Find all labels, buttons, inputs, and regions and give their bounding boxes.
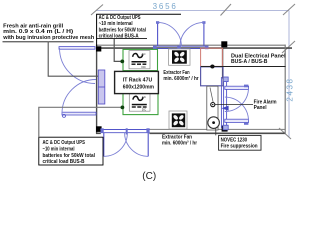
svg-text:2438: 2438 [286, 77, 295, 101]
svg-text:3656: 3656 [153, 2, 178, 11]
svg-text:IT Rack 47U: IT Rack 47U [123, 78, 152, 84]
svg-text:NOVEC 1230: NOVEC 1230 [221, 137, 248, 143]
svg-text:~10 min internal: ~10 min internal [99, 21, 133, 27]
svg-text:BUS-A / BUS-B: BUS-A / BUS-B [231, 59, 267, 65]
svg-text:Extractor Fan: Extractor Fan [163, 70, 190, 76]
svg-text:batteries for 50kW total: batteries for 50kW total [99, 27, 147, 33]
svg-text:with bug intrusion protective: with bug intrusion protective mesh [2, 35, 95, 41]
svg-text:600x1200mm: 600x1200mm [123, 85, 154, 91]
svg-text:~10 min internal: ~10 min internal [43, 147, 75, 153]
svg-text:min. 6000m³ / hr: min. 6000m³ / hr [163, 75, 199, 82]
svg-text:Panel: Panel [254, 105, 267, 111]
svg-text:(C): (C) [142, 171, 156, 182]
svg-text:AC & DC Output UPS: AC & DC Output UPS [99, 15, 141, 21]
svg-text:Fire suppression: Fire suppression [221, 144, 258, 150]
svg-text:batteries for 50kW total: batteries for 50kW total [43, 153, 96, 159]
svg-text:critical load BUS-B: critical load BUS-B [43, 159, 85, 165]
svg-text:AC & DC Output UPS: AC & DC Output UPS [43, 140, 86, 146]
svg-text:min. 6000m³ / hr: min. 6000m³ / hr [162, 139, 198, 146]
svg-text:critical load BUS-A: critical load BUS-A [99, 34, 139, 40]
